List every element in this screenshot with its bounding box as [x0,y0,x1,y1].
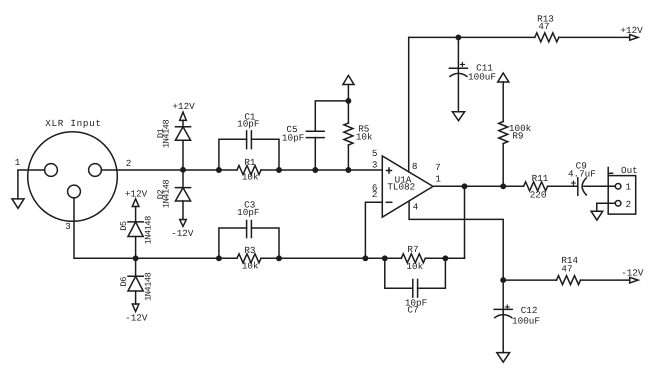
plus sign (C12) [505,305,509,309]
wire D5 to lower net [135,237,137,259]
junction top net / D1 D2 [181,168,185,172]
wire D1 to top net [182,140,184,170]
wire C5 top to R5 top [315,101,348,131]
svg-text:TL082: TL082 [387,182,415,193]
resistor R3 [237,254,261,263]
junction -12V rail / C12 [501,278,505,282]
wire op-amp output to R11 [433,185,524,187]
wire R13 to +12V arrow [559,36,630,38]
svg-text:10pF: 10pF [237,207,259,218]
wire arrow to D5 [135,207,137,222]
wire R9 bottom to output net [502,144,504,187]
diode D2 1N4148 [175,187,190,189]
wire R5 top vertical [347,101,349,123]
junction R9 on output net [501,184,505,188]
svg-text:D5: D5 [119,221,129,231]
junction C11 on +12V rail [456,35,460,39]
svg-text:1: 1 [435,174,441,185]
power arrow +12V (D5) [132,199,139,207]
junction inverting tap on lower net [363,256,367,260]
XLR pin 3 contact [68,185,81,198]
svg-text:+12V: +12V [620,25,643,36]
svg-text:2: 2 [626,199,632,210]
svg-text:1: 1 [15,157,21,168]
svg-text:1N4148: 1N4148 [144,272,154,301]
svg-text:1: 1 [626,182,632,193]
connector J1 XLR Input body [28,132,118,222]
svg-text:XLR Input: XLR Input [45,118,102,129]
power arrow -12V (right rail) [630,277,638,283]
wire lower net: R7 right to feedback corner [425,257,464,259]
capacitor C11 100uF (polarized) [449,67,467,69]
wire C1 right riser [251,139,279,170]
capacitor C3 [246,221,248,238]
ground (XLR pin 1) [12,199,24,208]
svg-text:2: 2 [372,189,378,200]
power arrow -12V (D6) [132,304,139,312]
junction feedback on output net [462,184,466,188]
resistor R14 [557,276,581,285]
diode D5 1N4148 [128,221,143,223]
svg-text:4.7uF: 4.7uF [568,168,596,179]
svg-text:100uF: 100uF [468,71,496,82]
junction lower net / D5 D6 [133,256,137,260]
svg-text:Out: Out [621,165,638,176]
wire pin3 down to lower net [74,198,136,258]
svg-text:3: 3 [65,221,71,232]
svg-text:R3: R3 [244,245,255,256]
svg-text:7: 7 [435,162,441,173]
svg-text:1N4148: 1N4148 [162,119,172,148]
wire R1 to op-amp noninverting input [261,169,382,171]
svg-text:47: 47 [538,21,549,32]
wire XLR pin2 to R1 [101,169,237,171]
power arrow (top of R5) [343,75,354,84]
svg-text:+12V: +12V [125,189,148,200]
wire lower net to op-amp inverting input [365,202,382,258]
plus sign (C9) [571,181,575,185]
svg-text:R1: R1 [244,157,256,168]
svg-text:2: 2 [126,158,132,169]
connector Out tick [608,172,612,174]
wire C3 left riser [219,228,247,258]
ground (Out pin 2) [591,211,603,220]
resistor R11 [524,182,548,191]
svg-text:10k: 10k [242,261,259,272]
wire C11 vertical [457,37,459,111]
svg-text:10pF: 10pF [282,132,304,143]
power arrow +12V (right rail) [630,35,638,41]
junction C1 right [277,168,281,172]
op-amp U1A TL082 [382,156,433,217]
resistor R13 [535,33,559,42]
svg-text:R7: R7 [407,244,418,255]
power arrow (top of R9) [498,73,509,82]
ground (C12) [497,353,510,363]
wire C1 left riser [219,139,247,170]
svg-text:47: 47 [561,264,572,275]
wire +12V arrow to D1 [182,120,184,126]
connector Out body [608,168,636,215]
wire lower net: D5/D6 node to R3 [136,257,237,259]
capacitor C12 100uF (polarized) [494,308,512,310]
svg-text:100uF: 100uF [512,315,540,326]
wire +12V rail left segment [409,36,535,38]
capacitor C7 [412,279,414,297]
svg-text:-12V: -12V [621,268,644,279]
wire pin1 to ground [18,170,45,199]
resistor R9 [499,122,508,144]
capacitor C1 [246,131,248,149]
wire arrow stem above R5 [347,85,349,101]
XLR pin 1 contact [45,164,58,177]
svg-text:3: 3 [372,160,378,171]
wire R11 to C9 [548,185,578,187]
svg-text:-12V: -12V [125,313,148,324]
wire R5 bottom to top net [347,145,349,170]
wire C7 right drop [418,258,446,288]
wire lower net: R3 to inverting-input tap [261,257,401,259]
junction C5 on top net [313,168,317,172]
capacitor C5 [306,137,324,139]
diode D6 1N4148 [128,275,143,277]
wire C12 vertical [502,280,504,353]
svg-text:5: 5 [372,148,378,159]
svg-text:D6: D6 [119,277,129,287]
svg-text:220: 220 [530,189,547,200]
svg-text:4: 4 [413,201,419,212]
wire D2 to -12V arrow [182,201,184,220]
svg-text:10k: 10k [356,132,373,143]
capacitor C9 4.7uF (polarized) [577,178,579,196]
wire feedback riser to output [464,186,466,258]
svg-text:10pF: 10pF [237,118,259,129]
junction C7 left [383,256,387,260]
wire D6 to -12V arrow [135,291,137,304]
junction C1 left [217,168,221,172]
XLR pin 2 contact [89,164,102,177]
power arrow +12V (D1) [180,112,187,120]
wire R9 top [502,82,504,122]
resistor R7 [401,254,425,263]
junction C7 right [443,256,447,260]
svg-text:10k: 10k [406,261,423,272]
ground (C11) [452,112,464,121]
wire C3 right riser [251,228,279,258]
wire C5 bottom [314,138,316,170]
wire -12V rail to R14 [503,279,556,281]
wire top net to D2 [182,170,184,188]
junction C3 right [277,256,281,260]
junction C3 left [217,256,221,260]
wire Out pin 2 to ground [597,203,616,211]
svg-text:1N4148: 1N4148 [144,216,154,245]
diode D1 1N4148 [175,126,190,128]
svg-text:+12V: +12V [172,101,195,112]
wire C9 to Out pin 1 [584,185,615,187]
svg-text:8: 8 [412,161,418,172]
wire C7 left drop [385,258,413,288]
Out pin 2 contact [615,201,621,207]
wire lower net to D6 [135,258,137,276]
op-amp minus sign [386,201,391,203]
junction R5 top [346,99,350,103]
svg-text:-12V: -12V [171,228,194,239]
junction R5 bottom on top net [346,168,350,172]
svg-text:10k: 10k [242,172,259,183]
wire pin 4 to -12V rail [409,202,503,281]
Out pin 1 contact [615,184,621,190]
svg-text:C7: C7 [407,305,418,316]
svg-text:R11: R11 [532,173,549,184]
resistor R5 [344,123,353,145]
svg-text:R9: R9 [512,130,523,141]
wire pin 8 to +12V rail [408,37,410,172]
svg-text:1N4148: 1N4148 [162,180,172,209]
resistor R1 [237,166,261,175]
plus sign (C11) [460,62,464,66]
wire R14 to -12V arrow [581,279,630,281]
power arrow -12V (D2) [180,220,187,227]
op-amp plus sign [387,168,392,173]
